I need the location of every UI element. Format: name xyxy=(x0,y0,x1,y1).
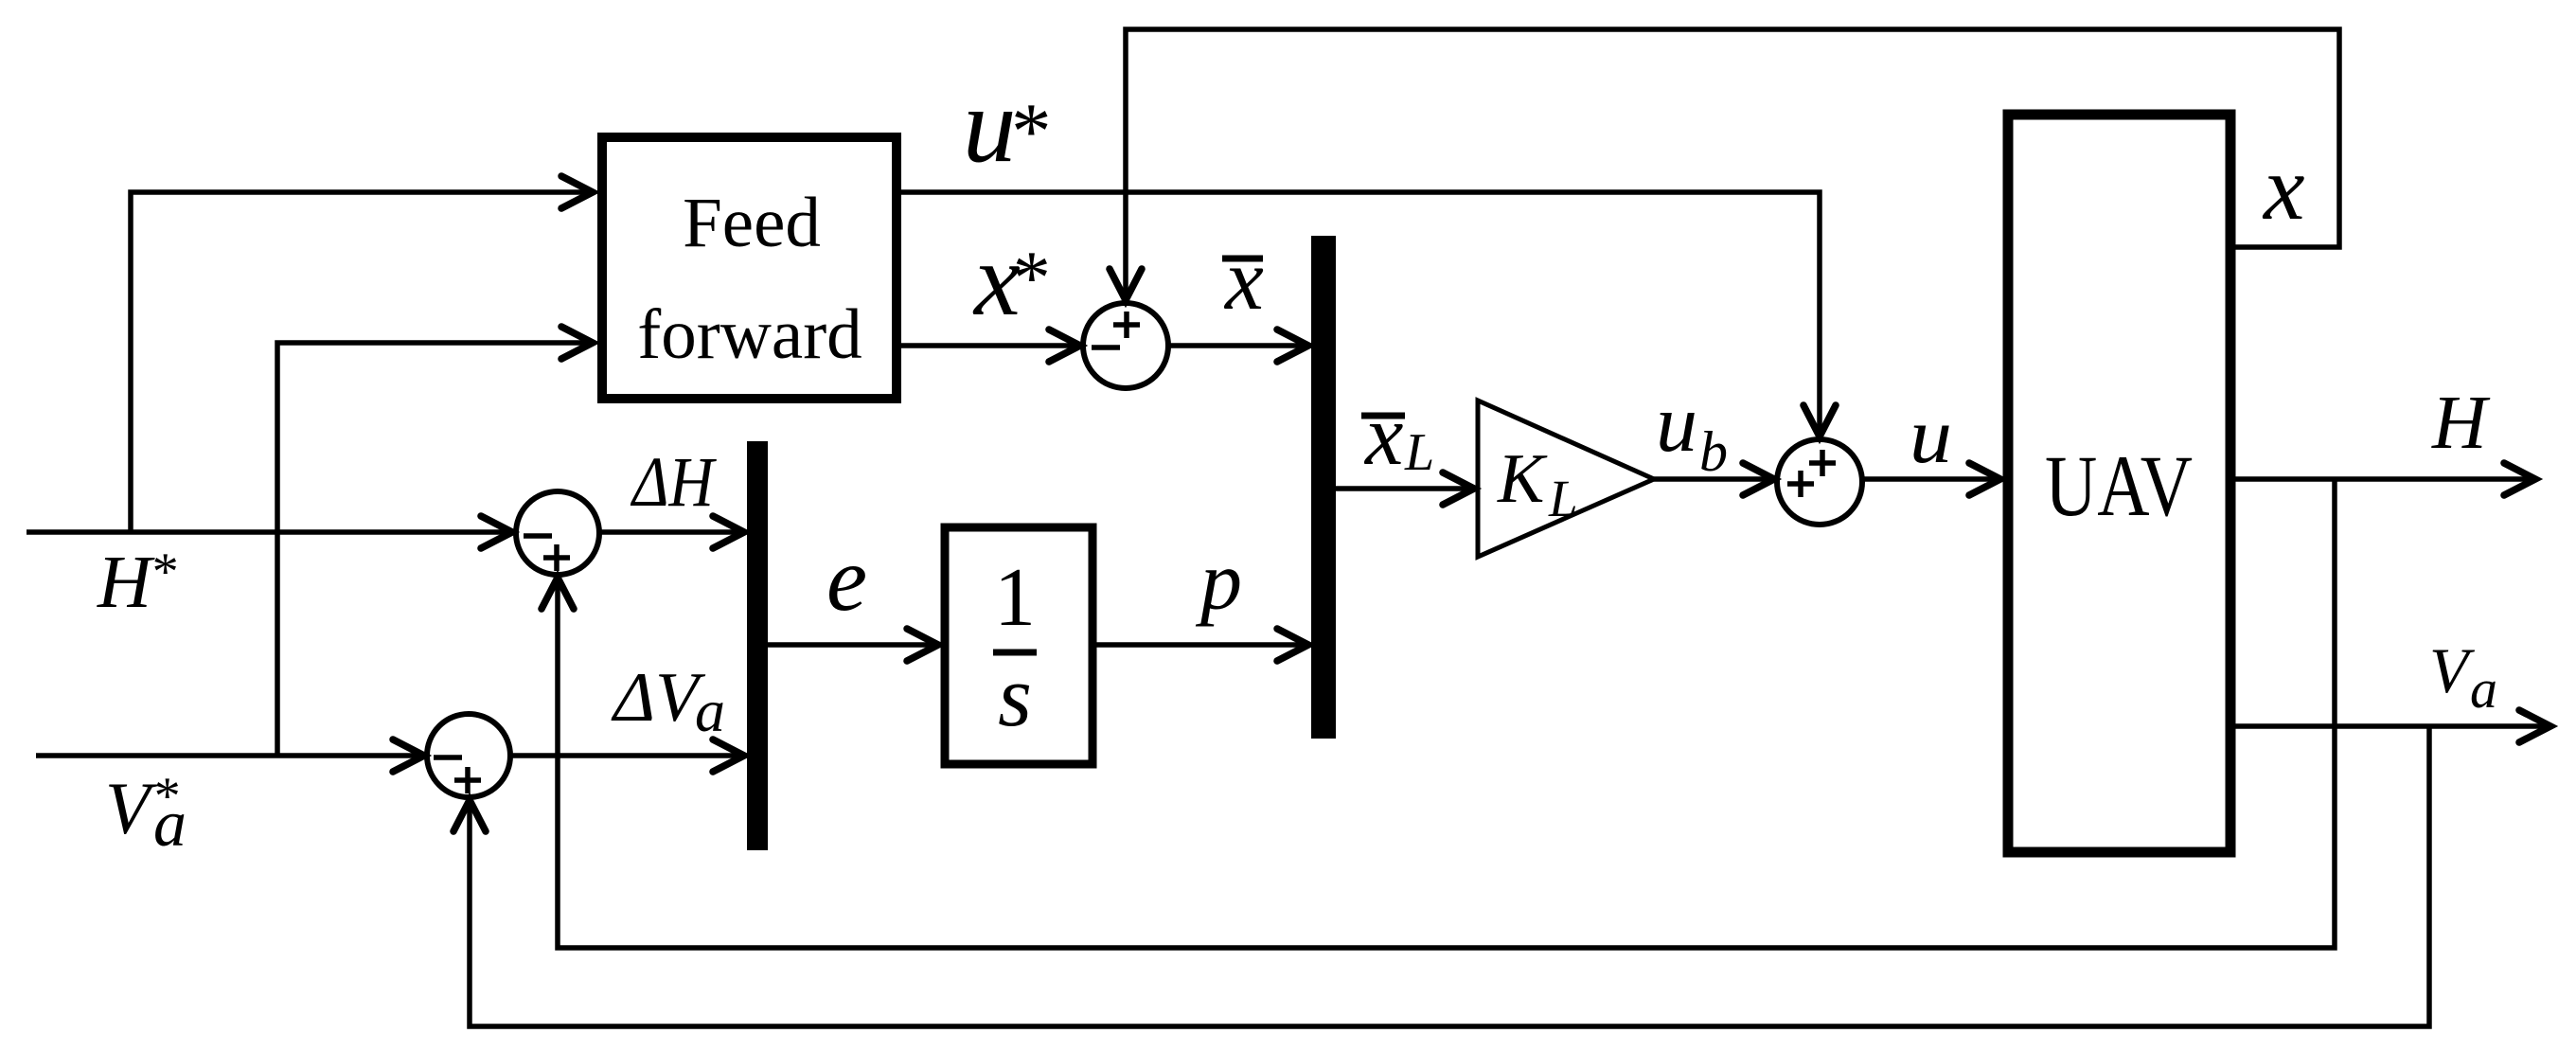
svg-text:UAV: UAV xyxy=(2045,437,2193,534)
svg-text:L: L xyxy=(1548,470,1578,527)
summing junction S3 (dVa = Va* - Va) xyxy=(427,714,510,797)
block Feed forward xyxy=(602,137,897,399)
svg-text:1: 1 xyxy=(994,552,1036,644)
svg-text:u: u xyxy=(1656,377,1697,469)
label Va output xyxy=(2429,634,2497,720)
wire Va* branch to Feed forward xyxy=(277,327,593,756)
svg-text:a: a xyxy=(2470,658,2497,720)
mux bar M2 xyxy=(747,441,768,850)
wire e from M2 to integrator xyxy=(768,629,938,661)
wire dVa from S3 to M2 xyxy=(510,739,744,772)
label ub xyxy=(1656,377,1728,483)
svg-text:x: x xyxy=(2262,137,2305,240)
svg-text:a: a xyxy=(695,677,725,744)
summing junction S1 (xbar = x* - x) xyxy=(1083,303,1168,388)
svg-text:u: u xyxy=(1910,392,1952,480)
wire dH from S2 to M2 xyxy=(599,516,744,548)
summing junction S4 (u = u* + ub) xyxy=(1777,439,1862,525)
wire u from S4 to UAV xyxy=(1862,463,2000,495)
mux bar M1 xyxy=(1311,236,1336,739)
wire x* from Feed forward to S1 xyxy=(897,330,1080,362)
summing junction S2 (dH = H* - H) xyxy=(516,491,599,575)
wire H feedback to S2 xyxy=(542,479,2335,948)
svg-text:b: b xyxy=(1699,420,1728,483)
wire Va feedback to S3 xyxy=(453,726,2429,1026)
label x* xyxy=(972,222,1047,337)
wire x feedback from UAV to S1 xyxy=(1110,29,2339,300)
svg-text:x: x xyxy=(1363,387,1403,483)
wire u* from Feed forward to S4 xyxy=(897,192,1836,436)
svg-text:ΔH: ΔH xyxy=(630,443,717,522)
svg-text:V: V xyxy=(105,767,158,849)
wire ub from K_L to S4 xyxy=(1654,463,1774,495)
svg-text:s: s xyxy=(998,648,1032,744)
svg-text:*: * xyxy=(1009,237,1047,320)
wire H output xyxy=(2235,463,2535,495)
svg-text:p: p xyxy=(1195,536,1242,628)
svg-text:e: e xyxy=(826,528,867,630)
svg-text:L: L xyxy=(1404,423,1434,482)
label dVa xyxy=(611,659,725,744)
block UAV xyxy=(2008,115,2230,852)
svg-text:*: * xyxy=(1007,87,1048,176)
label Va* xyxy=(105,767,187,861)
label xbar xyxy=(1222,231,1264,328)
label xbar_L xyxy=(1361,387,1434,483)
svg-text:*: * xyxy=(150,543,176,601)
wire xbar from S1 to M1 xyxy=(1168,330,1308,362)
svg-text:x: x xyxy=(1223,231,1264,328)
wire Va output xyxy=(2235,710,2550,742)
svg-text:Feed: Feed xyxy=(683,184,821,262)
label H* xyxy=(97,542,176,624)
label u* xyxy=(963,66,1048,185)
svg-text:H: H xyxy=(2431,382,2491,465)
svg-text:a: a xyxy=(153,788,187,861)
wire H* branch to Feed forward xyxy=(131,176,593,532)
wire p from integrator to M1 xyxy=(1096,629,1308,661)
svg-text:forward: forward xyxy=(637,295,862,374)
svg-text:ΔV: ΔV xyxy=(611,659,706,737)
block integrator 1/s xyxy=(945,527,1093,764)
wire xbar_L from M1 to K_L xyxy=(1336,472,1474,505)
svg-text:K: K xyxy=(1497,440,1548,518)
wire H* input xyxy=(27,516,512,548)
gain K_L triangle xyxy=(1478,401,1654,557)
wire Va* input xyxy=(36,739,424,772)
svg-text:H: H xyxy=(97,542,155,624)
